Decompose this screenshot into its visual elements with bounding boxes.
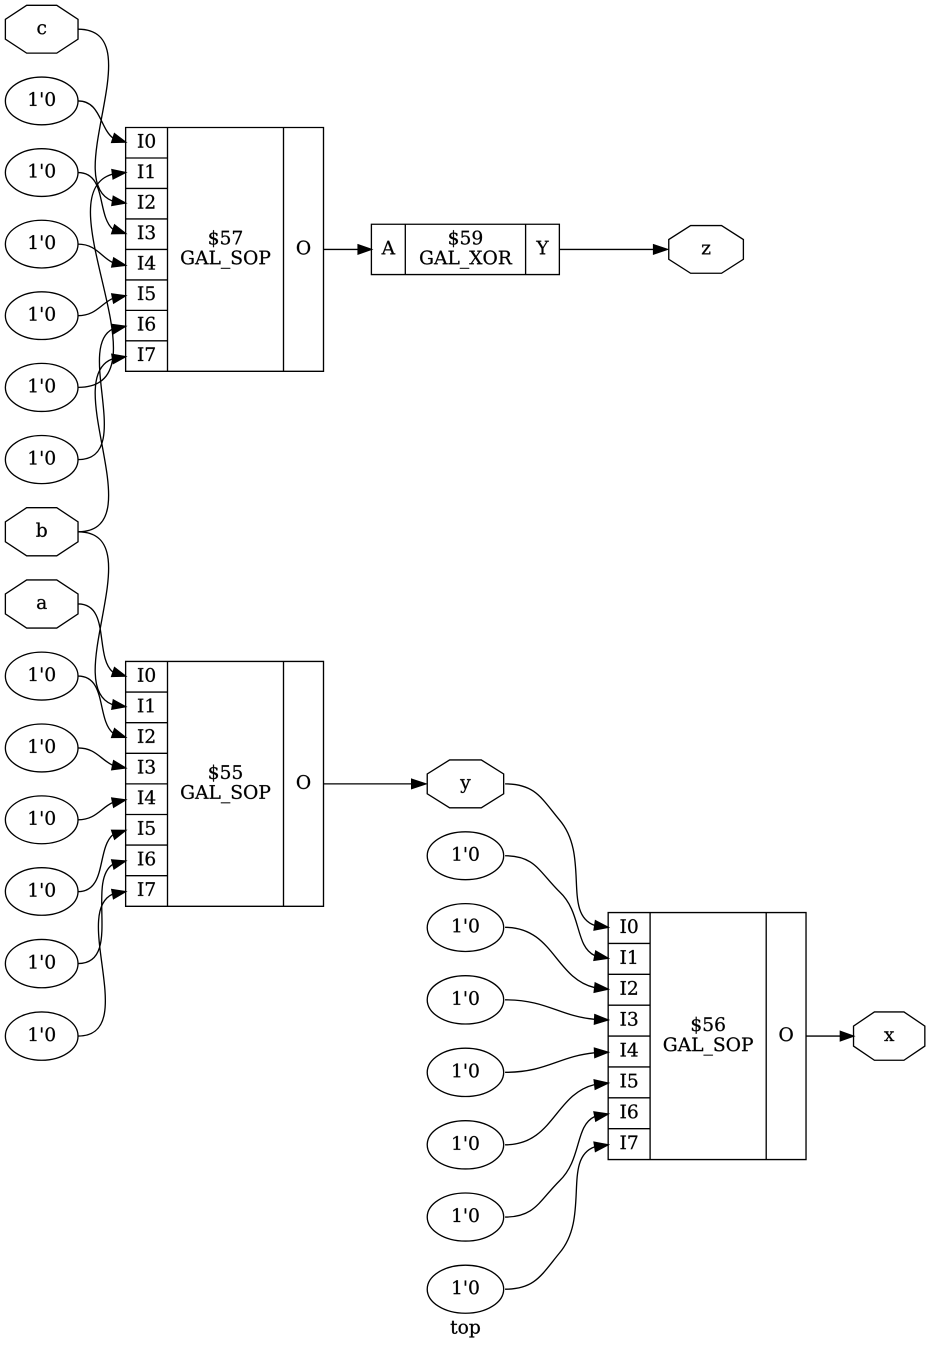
- port c (octagon): [5, 5, 78, 53]
- wire 1'0 (v11) to $56 pin I6: [505, 1112, 608, 1217]
- wire 1'0 (v12) to $56 pin I7: [505, 1142, 608, 1289]
- constant 1'0 (v17) driving $57.I5: [5, 292, 78, 340]
- port b (octagon): [5, 508, 78, 556]
- constant 1'0 (v13) driving $57.I0: [5, 77, 78, 125]
- wire c to $57 pin I2: [78, 29, 126, 205]
- cell $55 GAL_SOP: [126, 661, 324, 906]
- constant 1'0 (v12) driving $56.I7: [427, 1265, 503, 1313]
- wire 1'0 (v0) to $55 pin I2: [78, 676, 126, 737]
- wire 1'0 (v16) to $57 pin I4: [78, 244, 126, 267]
- constant 1'0 (v9) driving $56.I4: [427, 1048, 503, 1096]
- wire 1'0 (v2) to $55 pin I4: [78, 798, 126, 820]
- wire 1'0 (v8) to $56 pin I3: [505, 1000, 608, 1024]
- constant 1'0 (v14) driving $57.I1: [5, 363, 78, 411]
- constant 1'0 (v18) driving $57.I6: [5, 436, 78, 484]
- constant 1'0 (v8) driving $56.I3: [427, 976, 503, 1024]
- port x (octagon): [854, 1012, 925, 1060]
- wire 1'0 (v7) to $56 pin I2: [505, 927, 608, 992]
- constant 1'0 (v7) driving $56.I2: [427, 904, 503, 952]
- constant 1'0 (v5) driving $55.I7: [5, 1012, 78, 1060]
- wire 1'0 (v5) to $55 pin I7: [78, 890, 126, 1037]
- wire b to $57 pin I7: [78, 354, 126, 531]
- constant 1'0 (v3) driving $55.I5: [5, 868, 78, 916]
- constant 1'0 (v16) driving $57.I4: [5, 220, 78, 268]
- cell $59 GAL_XOR: [371, 224, 559, 274]
- module label: top: [451, 1321, 458, 1334]
- wire $56 pin O to x: [806, 1031, 854, 1040]
- cell $57 GAL_SOP: [126, 128, 324, 372]
- wire a to $55 pin I0: [78, 604, 126, 676]
- wire b to $55 pin I1: [78, 532, 126, 709]
- wire 1'0 (v18) to $57 pin I6: [78, 324, 126, 459]
- port a (octagon): [5, 580, 78, 628]
- wire 1'0 (v10) to $56 pin I5: [505, 1080, 608, 1145]
- wire 1'0 (v17) to $57 pin I5: [78, 294, 126, 316]
- wire 1'0 (v4) to $55 pin I6: [78, 860, 126, 964]
- port y (octagon): [427, 760, 503, 808]
- wire $57 pin O to $59 pin A: [324, 245, 372, 254]
- wire 1'0 (v9) to $56 pin I4: [505, 1048, 608, 1072]
- wire 1'0 (v14) to $57 pin I1: [78, 170, 126, 388]
- cell $56 GAL_SOP: [608, 913, 806, 1160]
- constant 1'0 (v15) driving $57.I3: [5, 149, 78, 197]
- constant 1'0 (v1) driving $55.I3: [5, 724, 78, 772]
- constant 1'0 (v6) driving $56.I1: [427, 832, 503, 880]
- constant 1'0 (v10) driving $56.I5: [427, 1121, 503, 1169]
- wire 1'0 (v13) to $57 pin I0: [78, 101, 126, 143]
- constant 1'0 (v0) driving $55.I2: [5, 652, 78, 700]
- wire y to $56 pin I0: [505, 784, 608, 930]
- wire $59 pin Y to z: [559, 245, 667, 254]
- wire 1'0 (v1) to $55 pin I3: [78, 748, 126, 770]
- port z (octagon): [669, 226, 744, 274]
- constant 1'0 (v2) driving $55.I4: [5, 796, 78, 844]
- wire $55 pin O to y: [324, 779, 426, 788]
- constant 1'0 (v4) driving $55.I6: [5, 939, 78, 987]
- wire 1'0 (v15) to $57 pin I3: [78, 173, 126, 234]
- constant 1'0 (v11) driving $56.I6: [427, 1193, 503, 1241]
- wire 1'0 (v3) to $55 pin I5: [78, 830, 126, 891]
- wire 1'0 (v6) to $56 pin I1: [505, 856, 608, 961]
